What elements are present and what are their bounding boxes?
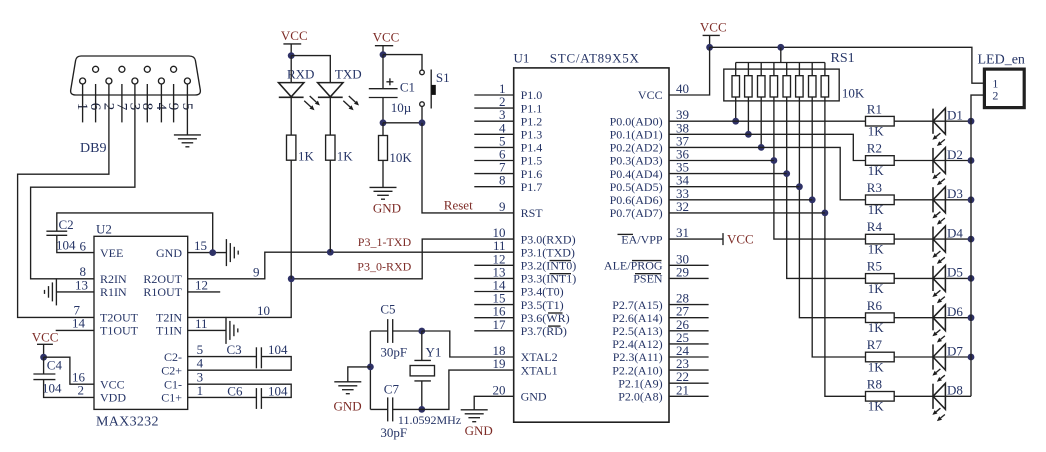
- svg-text:6: 6: [80, 239, 87, 254]
- svg-text:40: 40: [676, 81, 689, 96]
- node C1/10K junction: [380, 119, 387, 126]
- RS1 element 1: [735, 63, 737, 76]
- svg-text:D1: D1: [947, 108, 963, 123]
- LED TXD light arrows: [349, 96, 356, 102]
- svg-text:D3: D3: [947, 186, 963, 201]
- wire U1 pin 32 P0.7 to RS1: [669, 212, 825, 214]
- svg-text:P1.0: P1.0: [521, 88, 543, 102]
- node XTAL1 junction: [418, 406, 425, 413]
- node VCC top junction: [706, 44, 713, 51]
- svg-text:P0.5(AD5): P0.5(AD5): [610, 180, 663, 194]
- svg-text:GND: GND: [334, 399, 362, 414]
- overline WR on P3.6: [548, 312, 563, 314]
- wire DB9 pin 7 stub: [121, 84, 123, 122]
- svg-text:104: 104: [42, 381, 62, 396]
- svg-text:C5: C5: [380, 302, 395, 317]
- resistor R6: [866, 313, 895, 323]
- svg-text:1K: 1K: [868, 124, 885, 139]
- RS1 element 2: [747, 63, 749, 76]
- ground at U2 pin 15: [225, 239, 227, 266]
- wire TXD LED to R resistor: [329, 97, 331, 135]
- wire U1 pin 37 P0.2 to R3: [669, 147, 866, 199]
- svg-text:P1.6: P1.6: [521, 167, 543, 181]
- wire DB9 pin 3 to U2 R2IN: [31, 84, 135, 279]
- LED D1: [932, 109, 934, 134]
- LED D3 light arrows: [936, 212, 940, 216]
- wire junction to switch bottom: [383, 122, 422, 124]
- svg-text:P1.4: P1.4: [521, 141, 543, 155]
- LED D3: [932, 187, 934, 212]
- wire RXD resistor down to P3_0-RXD net: [290, 160, 292, 279]
- svg-text:P0.4(AD4): P0.4(AD4): [610, 167, 663, 181]
- wire left vertical C5-C7: [369, 331, 371, 409]
- wire 10K to ground: [382, 123, 384, 136]
- wire U1 pin 28 stub: [669, 304, 709, 306]
- svg-text:XTAL2: XTAL2: [521, 350, 558, 364]
- wire U1 pin 39 P0.0 to R1: [669, 120, 866, 122]
- svg-text:VCC: VCC: [727, 231, 754, 246]
- RS1 element 6: [798, 63, 800, 76]
- node D6 bus junction: [968, 314, 975, 321]
- svg-text:13: 13: [75, 277, 88, 292]
- svg-text:1: 1: [197, 383, 204, 398]
- wire U1 pin 5 stub: [474, 146, 513, 148]
- capacitor C3: [255, 347, 257, 368]
- wire U1 pin 26 stub: [669, 330, 709, 332]
- wire LED anode bus from LED_en pin 2: [971, 95, 984, 396]
- resistor R5: [866, 274, 895, 284]
- LED RXD light arrows: [310, 96, 317, 102]
- node RXD junction: [288, 275, 295, 282]
- svg-text:1K: 1K: [298, 149, 315, 164]
- wire U2 R1OUT pin 12 stub: [188, 291, 221, 293]
- wire U1 pin 29 stub: [669, 277, 709, 279]
- wire C2 top to U2 pin15 GND node: [57, 213, 213, 253]
- resistor 10K: [379, 136, 388, 161]
- svg-text:P3_0-RXD: P3_0-RXD: [357, 260, 411, 274]
- wire DB9 pin 1 stub: [82, 84, 84, 122]
- svg-text:P0.2(AD2): P0.2(AD2): [610, 141, 663, 155]
- svg-text:10µ: 10µ: [391, 100, 412, 115]
- svg-text:P2.1(A9): P2.1(A9): [618, 376, 662, 390]
- svg-text:1K: 1K: [868, 399, 885, 414]
- node P0.2 pull-up junction: [758, 144, 765, 151]
- wire RS1 element 8 through P0.7 node to R8: [825, 97, 866, 396]
- svg-text:S1: S1: [436, 70, 450, 85]
- node XTAL2 junction: [418, 328, 425, 335]
- ground at U1 pin 20: [461, 409, 488, 411]
- svg-text:P1.1: P1.1: [521, 101, 543, 115]
- svg-text:2: 2: [992, 89, 998, 103]
- svg-text:P0.3(AD3): P0.3(AD3): [610, 154, 663, 168]
- svg-text:12: 12: [195, 277, 208, 292]
- wire U1 pin 15 stub: [474, 304, 513, 306]
- svg-text:31: 31: [676, 225, 689, 240]
- svg-text:P3.4(T0): P3.4(T0): [521, 285, 564, 299]
- resistor R7: [866, 352, 895, 362]
- wire U1 pin 25 stub: [669, 343, 709, 345]
- svg-text:P0.7(AD7): P0.7(AD7): [610, 206, 663, 220]
- svg-text:R2IN: R2IN: [100, 272, 127, 286]
- svg-text:VCC: VCC: [32, 330, 59, 345]
- svg-text:4: 4: [197, 356, 204, 371]
- svg-text:P2.3(A11): P2.3(A11): [613, 350, 663, 364]
- svg-text:9: 9: [253, 264, 260, 279]
- wire U1 pin 7 stub: [474, 173, 513, 175]
- svg-text:GND: GND: [156, 246, 182, 260]
- LED D4 light arrows: [936, 251, 940, 255]
- resistor R8: [866, 392, 895, 402]
- svg-text:P1.3: P1.3: [521, 128, 543, 142]
- wire U1 pin 35 P0.4 to RS1: [669, 173, 787, 175]
- svg-text:1K: 1K: [868, 281, 885, 296]
- wire R7 to LED D7 to bus: [894, 356, 971, 358]
- svg-text:P2.6(A14): P2.6(A14): [612, 311, 662, 325]
- svg-text:32: 32: [676, 199, 689, 214]
- connector J1 DB9 body: [71, 56, 201, 95]
- svg-text:1K: 1K: [868, 202, 885, 217]
- wire U1 pin 36 P0.3 to RS1: [669, 160, 774, 162]
- svg-text:D5: D5: [947, 265, 963, 280]
- DB9 pin 4 circle: [158, 78, 164, 84]
- svg-text:9: 9: [499, 199, 506, 214]
- wire R2 to LED D2 to bus: [894, 160, 971, 162]
- wire R4 to LED D4 to bus: [894, 238, 971, 240]
- svg-text:R4: R4: [867, 219, 883, 234]
- DB9 pin 2 circle: [106, 78, 112, 84]
- node P0.5 pull-up junction: [796, 183, 803, 190]
- svg-text:U1: U1: [514, 51, 530, 66]
- svg-text:11: 11: [195, 316, 208, 331]
- svg-text:P3.5(T1): P3.5(T1): [521, 298, 564, 312]
- RS1 element 5: [786, 63, 788, 76]
- wire U1 pin 24 stub: [669, 356, 709, 358]
- wire net Reset to U1 RST pin 9: [422, 123, 514, 213]
- wire R5 to LED D5 to bus: [894, 277, 971, 279]
- svg-text:P3.1(TXD): P3.1(TXD): [521, 245, 575, 259]
- wire junction to crystal ground: [348, 367, 371, 382]
- svg-text:P2.2(A10): P2.2(A10): [612, 363, 662, 377]
- svg-text:VCC: VCC: [700, 20, 727, 35]
- svg-text:104: 104: [268, 342, 288, 357]
- capacitor C7: [387, 397, 389, 421]
- wire VCC rail to RS1 common: [780, 47, 782, 62]
- wire U1 pin 8 stub: [474, 186, 513, 188]
- resistor R4: [866, 234, 895, 244]
- svg-text:15: 15: [194, 238, 207, 253]
- node VCC C1 junction: [380, 51, 387, 58]
- svg-text:10K: 10K: [389, 150, 412, 165]
- svg-text:C2-: C2-: [164, 350, 182, 364]
- wire VCC to RXD LED: [290, 56, 292, 83]
- RS1 element 4: [773, 63, 775, 76]
- wire RS1 element 5 through P0.4 node to R5: [787, 97, 866, 278]
- svg-text:DB9: DB9: [80, 141, 106, 156]
- svg-text:D4: D4: [947, 225, 963, 240]
- DB9 pin 3 circle: [132, 78, 138, 84]
- svg-text:1K: 1K: [868, 242, 885, 257]
- LED TXD symbol: [318, 83, 343, 97]
- wire VCC to U1 pin 40: [669, 47, 710, 95]
- svg-text:GND: GND: [373, 200, 401, 215]
- wire net P3_0-RXD to U1 P3.0: [291, 239, 514, 279]
- ground at crystal: [334, 381, 361, 383]
- wire DB9 pin 6 stub: [95, 84, 97, 122]
- wire XTAL1 node to U1 pin 19: [422, 370, 514, 409]
- svg-text:D2: D2: [947, 147, 963, 162]
- svg-text:29: 29: [676, 264, 689, 279]
- wire U1 pin 16 stub: [474, 317, 513, 319]
- svg-text:C2+: C2+: [161, 363, 182, 377]
- svg-text:P1.2: P1.2: [521, 114, 543, 128]
- svg-text:14: 14: [72, 315, 86, 330]
- LED D4: [932, 227, 934, 252]
- svg-text:U2: U2: [96, 222, 112, 237]
- svg-text:21: 21: [676, 382, 689, 397]
- svg-text:R1OUT: R1OUT: [143, 285, 182, 299]
- svg-text:C1: C1: [400, 80, 415, 95]
- LED D2: [932, 148, 934, 173]
- wire U1 pin 21 stub: [669, 395, 709, 397]
- node P0.1 pull-up junction: [745, 131, 752, 138]
- DB9 pin 8 circle: [144, 66, 150, 72]
- wire C4 to U2 pin 2 VDD: [44, 380, 94, 398]
- LED D6 light arrows: [936, 330, 940, 334]
- wire U1 pin 22 stub: [669, 382, 709, 384]
- wire U1 pin 6 stub: [474, 160, 513, 162]
- wire TXD resistor down to P3_1-TXD net: [329, 160, 331, 252]
- wire R1 to LED D1 to bus: [894, 120, 971, 122]
- wire U1 pin 23 stub: [669, 369, 709, 371]
- wire U1 pin 34 P0.5 to RS1: [669, 186, 799, 188]
- capacitor C1 electrolytic: [382, 55, 384, 89]
- wire U2 pin 1 C1+ to C6: [188, 396, 257, 398]
- svg-text:R1IN: R1IN: [100, 285, 127, 299]
- svg-text:T1IN: T1IN: [156, 324, 182, 338]
- svg-text:VDD: VDD: [100, 391, 126, 405]
- wire C5 to XTAL2 node: [393, 330, 422, 332]
- capacitor C2: [46, 230, 67, 232]
- wire U1 pin 33 P0.6 to RS1: [669, 199, 812, 201]
- DB9 pin 1 circle: [80, 78, 86, 84]
- svg-text:RST: RST: [521, 206, 544, 220]
- resistor 1K below TXD LED: [326, 135, 335, 160]
- node VCC LED junction: [288, 52, 295, 59]
- LED RXD symbol: [279, 83, 304, 97]
- wire U2 GND pin 15: [188, 252, 227, 254]
- wire U2 T1IN pin 11 to ground: [188, 329, 226, 331]
- svg-text:D8: D8: [947, 383, 963, 398]
- wire net P3_1-TXD : U2 R2OUT pin 9 to U1 P3.1: [188, 252, 514, 279]
- svg-text:VCC: VCC: [281, 28, 308, 43]
- wire U2 R1IN pin 13 to ground: [56, 291, 94, 293]
- LED D2 light arrows: [936, 172, 940, 176]
- wire DB9 pin 2 to U2 T2OUT: [18, 84, 109, 317]
- connector LED_en box: [984, 69, 1024, 108]
- svg-text:30pF: 30pF: [380, 345, 407, 360]
- wire DB9 pin 9 stub: [173, 84, 175, 122]
- RS1 element 7: [811, 63, 813, 76]
- svg-text:10: 10: [257, 303, 270, 318]
- svg-text:VCC: VCC: [373, 30, 400, 45]
- svg-text:R5: R5: [867, 259, 882, 274]
- wire C7 to XTAL1 node: [393, 408, 422, 410]
- node TXD junction: [327, 249, 334, 256]
- MCU U1 STC/AT89X5X box: [514, 68, 669, 422]
- node P0.0 pull-up junction: [732, 118, 739, 125]
- svg-text:P1.7: P1.7: [521, 180, 543, 194]
- wire DB9 pin 8 stub: [146, 84, 148, 122]
- C1 plus sign: [386, 81, 393, 83]
- wire R8 to LED D8 to bus: [894, 395, 971, 397]
- svg-text:104: 104: [268, 384, 288, 399]
- svg-text:P0.1(AD1): P0.1(AD1): [610, 128, 663, 142]
- svg-text:VEE: VEE: [100, 246, 123, 260]
- svg-text:1K: 1K: [868, 163, 885, 178]
- LED D5 light arrows: [936, 290, 940, 294]
- overline PSEN: [635, 273, 661, 275]
- svg-text:R2OUT: R2OUT: [143, 272, 182, 286]
- svg-text:C6: C6: [227, 384, 243, 399]
- svg-text:11.0592MHz: 11.0592MHz: [398, 413, 461, 427]
- ground at DB9 pin 5: [174, 134, 201, 136]
- wire U1 pin 27 stub: [669, 317, 709, 319]
- overline INT0 on P3.2: [550, 260, 572, 262]
- svg-text:1K: 1K: [868, 320, 885, 335]
- wire C1 to 10K node: [382, 98, 384, 123]
- wire U1 pin 4 stub: [474, 133, 513, 135]
- node D1 bus junction: [968, 118, 975, 125]
- svg-text:R3: R3: [867, 180, 882, 195]
- wire C2 bottom to U2 VEE pin 6: [57, 235, 94, 252]
- svg-text:20: 20: [493, 382, 506, 397]
- capacitor C6: [255, 388, 257, 409]
- svg-text:VCC: VCC: [100, 377, 125, 391]
- overline RD on P3.7: [548, 325, 561, 327]
- svg-text:C7: C7: [384, 382, 400, 397]
- svg-text:T1OUT: T1OUT: [100, 324, 139, 338]
- ground at U2 pin 13 R1IN: [55, 278, 57, 305]
- crystal Y1: [421, 331, 423, 360]
- svg-text:Y1: Y1: [426, 345, 442, 360]
- svg-text:GND: GND: [521, 390, 547, 404]
- svg-text:RS1: RS1: [831, 51, 855, 66]
- LED D8: [932, 384, 934, 409]
- ground at U2 pin 11 T1IN: [225, 317, 227, 344]
- wire U2 T2IN pin 10 up to RXD node: [188, 279, 292, 318]
- svg-text:GND: GND: [465, 423, 493, 438]
- DB9 pin 5 circle: [184, 78, 190, 84]
- wire U2 T1OUT pin 14 stub: [56, 329, 94, 331]
- node D7 bus junction: [968, 354, 975, 361]
- svg-text:MAX3232: MAX3232: [96, 415, 159, 430]
- node P0.7 pull-up junction: [822, 210, 829, 217]
- resistor 1K below RXD LED: [287, 135, 296, 160]
- svg-text:VCC: VCC: [638, 88, 663, 102]
- wire U1 pin 14 stub: [474, 291, 513, 293]
- node P0.4 pull-up junction: [783, 170, 790, 177]
- svg-text:C1+: C1+: [161, 391, 182, 405]
- wire RS1 element 6 through P0.5 node to R6: [799, 97, 865, 318]
- LED D7: [932, 344, 934, 369]
- node D2 bus junction: [968, 157, 975, 164]
- svg-text:Reset: Reset: [444, 197, 473, 212]
- wire XTAL2 node to U1 pin 18: [422, 331, 514, 357]
- wire VCC rail to LED_en pin 1: [710, 47, 985, 83]
- svg-text:P2.5(A13): P2.5(A13): [612, 324, 662, 338]
- svg-text:C1-: C1-: [164, 377, 182, 391]
- svg-text:C4: C4: [47, 358, 63, 373]
- svg-text:P2.7(A15): P2.7(A15): [612, 298, 662, 312]
- svg-text:R8: R8: [867, 376, 882, 391]
- capacitor C4: [33, 373, 55, 375]
- svg-text:8: 8: [499, 173, 506, 188]
- resistor R3: [866, 195, 895, 205]
- wire U1 pin 17 stub: [474, 330, 513, 332]
- svg-text:R1: R1: [867, 101, 882, 116]
- wire U1 pin 12 stub: [474, 264, 513, 266]
- svg-text:C3: C3: [227, 342, 242, 357]
- svg-text:T2OUT: T2OUT: [100, 311, 139, 325]
- RS1 common bus: [736, 62, 825, 64]
- svg-text:17: 17: [493, 317, 507, 332]
- node D5 bus junction: [968, 275, 975, 282]
- node P0.3 pull-up junction: [771, 157, 778, 164]
- wire U2 pin 3 C1- loop to C6: [188, 384, 292, 397]
- RS1 element 8: [824, 63, 826, 76]
- node VCC/C4 junction: [40, 354, 47, 361]
- svg-text:D7: D7: [947, 343, 963, 358]
- LED D1 light arrows: [936, 133, 940, 137]
- wire U1 pin 1 stub: [474, 94, 513, 96]
- capacitor C5: [387, 319, 389, 343]
- node P0.6 pull-up junction: [809, 196, 816, 203]
- resistor network RS1 box: [724, 69, 839, 101]
- wire RS1 element 1 to P0.0 node: [735, 97, 737, 121]
- node switch/reset junction: [419, 119, 426, 126]
- wire RS1 element 4 through P0.3 node to R4: [774, 97, 866, 239]
- resistor R2: [866, 156, 895, 166]
- node D4 bus junction: [968, 236, 975, 243]
- LED D6: [932, 305, 934, 330]
- svg-text:10K: 10K: [842, 86, 865, 101]
- svg-text:LED_en: LED_en: [978, 53, 1025, 68]
- svg-text:P3.0(RXD): P3.0(RXD): [521, 232, 576, 246]
- overline PROG on ALE/PROG: [632, 260, 662, 262]
- node D3 bus junction: [968, 196, 975, 203]
- wire VCC to TXD LED branch: [291, 56, 330, 83]
- resistor R1: [866, 116, 895, 126]
- svg-text:P0.0(AD0): P0.0(AD0): [610, 114, 663, 128]
- svg-text:1K: 1K: [868, 359, 885, 374]
- wire DB9 pin 5 to ground: [186, 84, 188, 135]
- wire C3 to U2 pin 4 C2+: [188, 357, 292, 371]
- svg-text:P1.5: P1.5: [521, 154, 543, 168]
- wire U1 pin 31 EA/VPP to VCC tap: [669, 238, 723, 240]
- wire U1 pin 30 stub: [669, 264, 709, 266]
- switch S1: [420, 70, 425, 75]
- DB9 pin 6 circle: [93, 66, 99, 72]
- svg-text:TXD: TXD: [335, 66, 362, 81]
- wire U1 pin 3 stub: [474, 120, 513, 122]
- node U2 pin15 GND junction: [209, 249, 216, 256]
- wire U1 pin 38 P0.1 to R2: [669, 134, 866, 160]
- wire VCC to U2 pin 16: [44, 357, 94, 384]
- ground below 10K: [370, 186, 397, 188]
- svg-text:STC/AT89X5X: STC/AT89X5X: [550, 51, 640, 66]
- wire R3 to LED D3 to bus: [894, 199, 971, 201]
- svg-text:R2: R2: [867, 141, 882, 156]
